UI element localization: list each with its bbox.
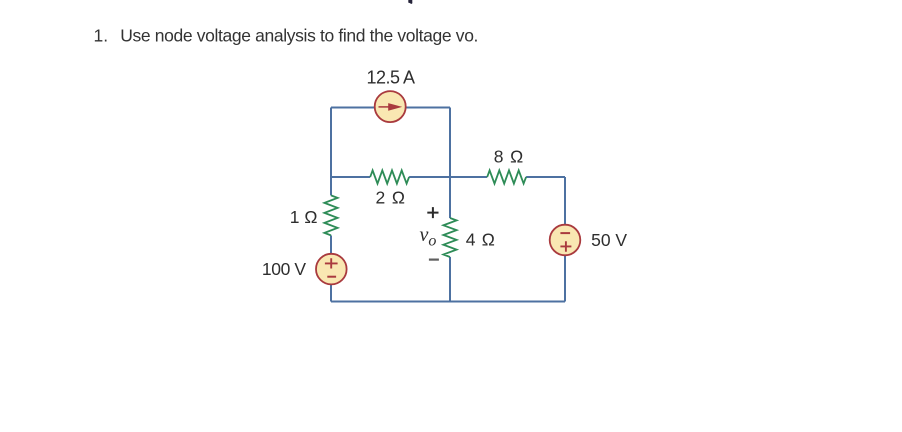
voltage source 100 V (262, 254, 347, 285)
svg-text:12.5 A: 12.5 A (366, 67, 415, 87)
wire left vertical lower (330, 235, 332, 301)
resistor 1 ohm (290, 195, 338, 235)
svg-text:4 Ω: 4 Ω (466, 230, 496, 250)
wire middle horizontal left segment (331, 176, 370, 178)
vo polarity plus (427, 207, 438, 218)
wire middle horizontal centre segment (409, 176, 487, 178)
resistor 8 ohm (487, 146, 526, 183)
wire top (node between 1ohm branch and current source) (331, 107, 450, 109)
wire middle horizontal right segment (526, 176, 565, 178)
vo polarity minus (429, 259, 439, 261)
wire right vertical (564, 177, 566, 302)
svg-text:8 Ω: 8 Ω (494, 146, 524, 166)
wire centre vertical upper (449, 108, 451, 219)
current source 12.5 A (366, 67, 415, 122)
title (94, 25, 479, 45)
voltage source 50 V (550, 225, 628, 256)
stray glyph fragment top edge (408, 0, 412, 4)
svg-text:50 V: 50 V (591, 230, 627, 250)
wire left vertical upper (330, 108, 332, 196)
wire centre vertical lower (449, 257, 451, 302)
svg-text:100 V: 100 V (262, 259, 307, 279)
resistor 2 ohm (370, 170, 409, 207)
svg-text:1 Ω: 1 Ω (290, 207, 318, 227)
resistor 4 ohm (443, 218, 495, 257)
svg-text:1.: 1. (94, 25, 109, 45)
svg-text:Use node voltage analysis to f: Use node voltage analysis to find the vo… (120, 25, 478, 45)
svg-text:2 Ω: 2 Ω (376, 188, 406, 208)
wire bottom (331, 301, 565, 303)
